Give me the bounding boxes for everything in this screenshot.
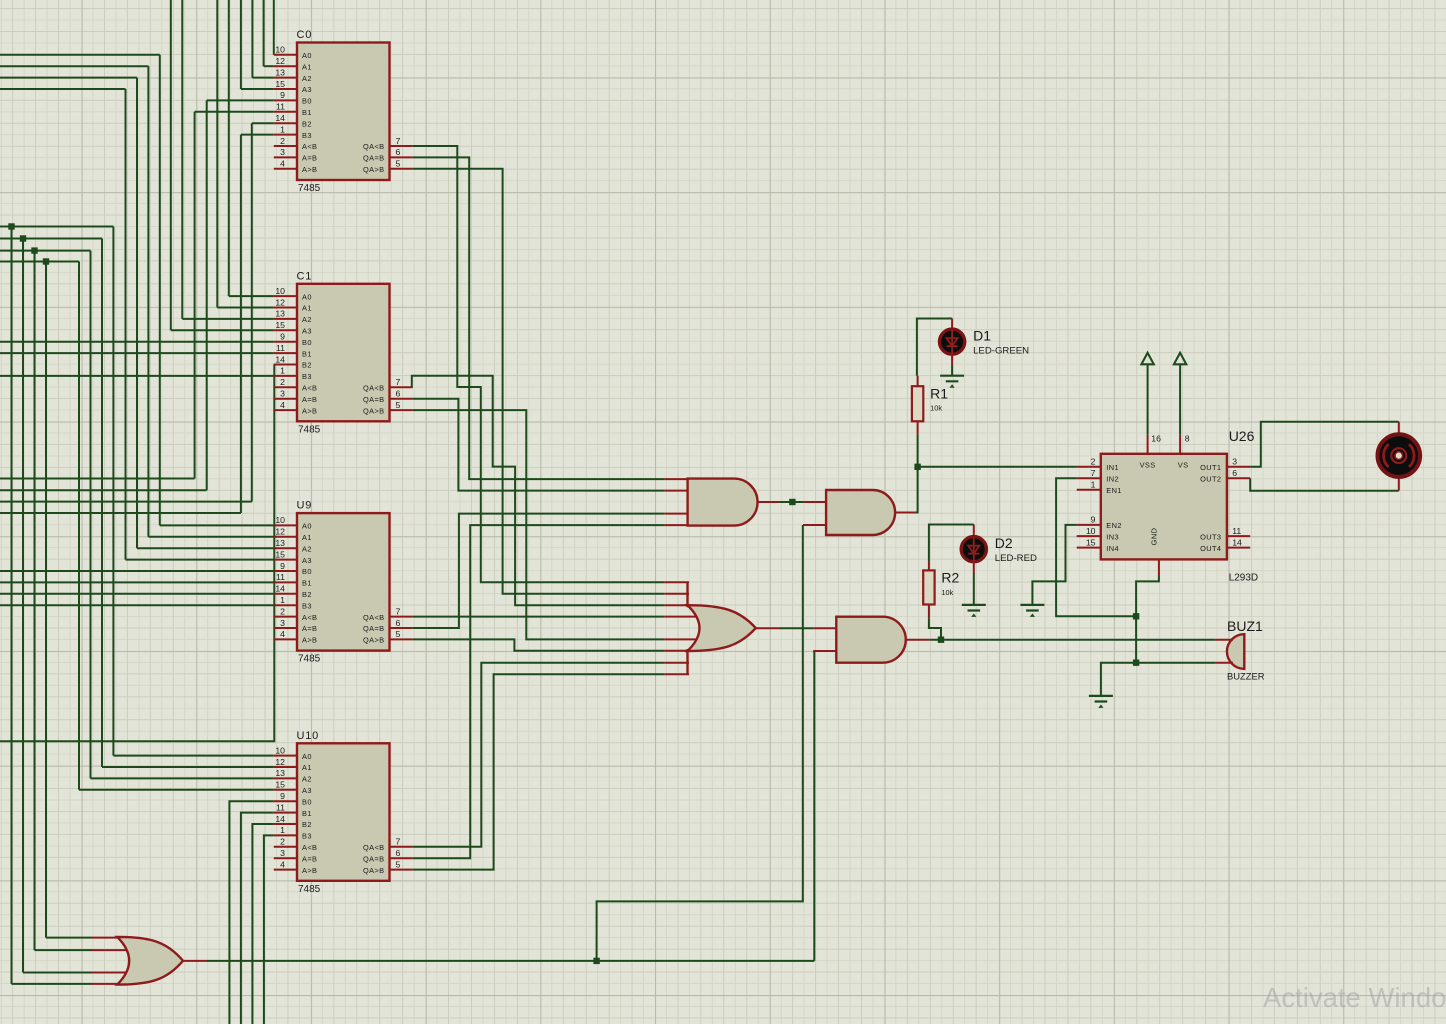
wire column x=137 to U9.A2 — [136, 78, 138, 549]
svg-text:B3: B3 — [302, 601, 312, 610]
U9 pin 15 (A3) stub — [274, 559, 297, 561]
svg-text:3: 3 — [280, 389, 285, 399]
svg-text:7485: 7485 — [298, 183, 321, 194]
U10 pin 5 (QA&gt;B) stub — [390, 869, 413, 871]
C0 pin 12 (A1) stub — [274, 65, 297, 67]
svg-text:13: 13 — [275, 768, 285, 778]
OR gate OR2 body outline — [688, 605, 756, 651]
wire into C0.A1 — [264, 65, 274, 67]
U26 pin 1 (EN1) stub — [1077, 489, 1101, 491]
AND gate AND2 input 2 stub — [803, 524, 826, 526]
svg-text:GND: GND — [1149, 528, 1158, 546]
svg-text:B2: B2 — [302, 361, 312, 370]
svg-text:9: 9 — [280, 90, 285, 100]
wire into OR1 in1 — [46, 937, 92, 939]
wire U26.OUT1 to motor + — [1250, 422, 1399, 467]
wire column x=228.8 from top edge to C1.A0 — [228, 0, 230, 296]
junction at (1136.1,662.7) — [1133, 660, 1139, 666]
svg-text:C1: C1 — [297, 270, 313, 282]
buzzer BUZ1 - pin stub — [1216, 662, 1233, 664]
wire D1 cathode to ground — [951, 366, 953, 376]
buzzer BUZ1 body — [1227, 634, 1244, 669]
OR gate OR1 input 1 stub — [92, 937, 119, 939]
svg-text:12: 12 — [275, 56, 285, 66]
wire column x=194.6 C0.B1 drop — [194, 112, 196, 479]
C1 pin 15 (A3) stub — [274, 329, 297, 331]
wire U10.B3 from bottom edge column x=263.9 — [264, 835, 274, 1024]
svg-text:A=B: A=B — [302, 624, 317, 633]
OR gate OR1 input 2 stub — [92, 949, 128, 951]
U9 pin 11 (B1) stub — [274, 581, 297, 583]
wire column x=46 (net to OR1 in1) — [45, 262, 47, 938]
wire U26.EN2 to ground symbol — [1032, 525, 1076, 605]
wire column x=148.4 to U9.A1 — [147, 66, 149, 537]
svg-text:5: 5 — [396, 859, 401, 869]
svg-text:A<B: A<B — [302, 843, 317, 852]
C1 pin 11 (B1) stub — [274, 352, 297, 354]
svg-text:QA<B: QA<B — [363, 142, 385, 151]
wire row y=54.8 from left edge — [0, 54, 160, 56]
power symbol (arrow up) — [1141, 353, 1153, 365]
svg-text:QA=B: QA=B — [363, 854, 385, 863]
U26 pin 6 (OUT2) stub — [1227, 477, 1250, 479]
wire OR1 output row — [207, 960, 815, 962]
wire bus row into U9.B3 — [0, 604, 274, 606]
comparator U9 7485 body — [297, 513, 390, 651]
wire column x=11.5 (net to OR1 in4) — [11, 227, 13, 984]
wire R1 bottom to junction — [917, 434, 919, 466]
C1 pin 6 (QA=B) stub — [390, 398, 413, 400]
motor U26 load (DC motor symbol) — [1378, 434, 1421, 477]
resistor R1 top lead — [917, 376, 919, 387]
wire into OR1 in2 — [35, 949, 93, 951]
AND gate AND1 input 4 stub — [664, 524, 687, 526]
LED D1 anode lead — [951, 319, 953, 331]
wire column x=170.8 from top edge to C1.A3 — [170, 0, 172, 330]
ground symbol — [1020, 605, 1044, 611]
wire into C1.A1 — [217, 307, 273, 309]
wire junction down to buzzer ground junction — [1135, 616, 1137, 662]
svg-text:11: 11 — [276, 572, 285, 582]
svg-text:6: 6 — [396, 618, 401, 628]
wire VS to power arrow — [1179, 365, 1181, 435]
junction at (1136.1,616.3) — [1133, 613, 1139, 619]
svg-text:B0: B0 — [302, 97, 312, 106]
wire C1.QA=B to AND1 in2 — [413, 399, 665, 491]
svg-text:11: 11 — [276, 102, 285, 112]
OR gate OR1 input 4 stub — [92, 983, 119, 985]
U10 pin 14 (B2) stub — [274, 823, 297, 825]
svg-text:2: 2 — [280, 837, 285, 847]
svg-text:4: 4 — [280, 859, 285, 869]
U9 pin 5 (QA&gt;B) stub — [390, 638, 413, 640]
svg-text:16: 16 — [1151, 434, 1161, 444]
svg-text:A3: A3 — [302, 556, 312, 565]
wire U10.B2 from bottom edge column x=252.4 — [252, 824, 273, 1024]
U9 pin 1 (B3) stub — [274, 604, 297, 606]
svg-text:7: 7 — [396, 136, 401, 146]
wire bus row into C1.B1 — [0, 352, 274, 354]
wire column x=251.8 C0.B2 drop — [251, 123, 253, 501]
svg-text:2: 2 — [280, 136, 285, 146]
OR gate OR2 input 1 stub — [664, 581, 689, 583]
svg-text:8: 8 — [1185, 434, 1190, 444]
svg-text:LED-GREEN: LED-GREEN — [973, 346, 1029, 357]
svg-text:OUT1: OUT1 — [1200, 463, 1221, 472]
svg-text:OUT4: OUT4 — [1200, 544, 1221, 553]
U9 pin 12 (A1) stub — [274, 536, 297, 538]
junction at AND1 output — [789, 499, 795, 505]
svg-text:B3: B3 — [302, 131, 312, 140]
svg-text:L293D: L293D — [1229, 573, 1258, 584]
svg-text:VS: VS — [1178, 461, 1189, 470]
wire into C0.B0 — [207, 99, 274, 101]
LED D2 diode symbol — [968, 537, 979, 561]
svg-text:5: 5 — [396, 400, 401, 410]
svg-text:Activate Windo: Activate Windo — [1263, 982, 1446, 1013]
svg-text:IN3: IN3 — [1106, 532, 1119, 541]
wire row y=501.6 to left edge — [0, 501, 252, 503]
wire row y=89 from left edge — [0, 88, 126, 90]
svg-text:13: 13 — [275, 67, 285, 77]
wire R2 bottom to AND3 output junction — [929, 618, 941, 640]
svg-text:6: 6 — [396, 389, 401, 399]
wire into C0.A0 — [273, 54, 275, 56]
wire column x=240.9 from top edge to C0.A3 — [240, 0, 242, 89]
U9 pin 6 (QA=B) stub — [390, 627, 413, 629]
LED D1 diode symbol — [947, 330, 958, 354]
wire row y=226.5 from left edge — [0, 226, 113, 228]
svg-text:9: 9 — [280, 791, 285, 801]
junction at (34.5,250.6) — [31, 247, 37, 253]
svg-text:IN1: IN1 — [1106, 463, 1119, 472]
svg-text:A2: A2 — [302, 74, 312, 83]
svg-text:B2: B2 — [302, 119, 312, 128]
wire column x=206.7 C0.B0 drop — [206, 100, 208, 490]
C1 pin 9 (B0) stub — [274, 341, 297, 343]
wire OR2 output to AND3 in1 — [779, 627, 813, 629]
AND gate AND1 body — [688, 479, 758, 526]
LED D1 body — [940, 329, 965, 354]
svg-text:U9: U9 — [297, 500, 313, 512]
U10 pin 10 (A0) stub — [274, 755, 297, 757]
driver U26 L293D body — [1101, 454, 1227, 560]
wire U10.QA=B up to AND1 in4 — [413, 525, 665, 858]
svg-text:7: 7 — [396, 377, 401, 387]
svg-text:1: 1 — [1091, 480, 1096, 490]
wire into OR1 in3 — [23, 972, 92, 974]
wire into C0.A3 — [241, 88, 274, 90]
wire U9.QA<B to OR2 in4 — [413, 616, 665, 618]
wire into OR1 in4 — [12, 983, 93, 985]
svg-text:IN4: IN4 — [1106, 544, 1119, 553]
wire U10.QA>B up to OR2 in8 — [413, 674, 665, 869]
wire into U9.A0 — [160, 524, 274, 526]
wire row y=478.5 to left edge — [0, 478, 195, 480]
svg-text:B1: B1 — [302, 809, 312, 818]
motor - lead — [1398, 479, 1400, 491]
wire into U9.A3 — [126, 559, 274, 561]
svg-text:13: 13 — [275, 538, 285, 548]
U9 pin 9 (B0) stub — [274, 570, 297, 572]
svg-text:2: 2 — [280, 606, 285, 616]
svg-text:B3: B3 — [302, 372, 312, 381]
svg-text:14: 14 — [275, 584, 285, 594]
C0 pin 14 (B2) stub — [274, 122, 297, 124]
C0 pin 2 (A&lt;B) stub — [274, 145, 297, 147]
ground symbol — [940, 376, 964, 382]
AND1 output stub — [758, 501, 780, 503]
C0 pin 3 (A=B) stub — [274, 156, 297, 158]
svg-text:14: 14 — [275, 113, 285, 123]
AND gate AND3 body — [836, 617, 906, 663]
junction at (596.6,960.9) — [593, 958, 599, 964]
svg-text:A<B: A<B — [302, 384, 317, 393]
LED D2 anode lead — [973, 525, 975, 538]
C0 pin 7 (QA&lt;B) stub — [390, 145, 413, 147]
svg-text:7485: 7485 — [298, 654, 321, 665]
U10 pin 15 (A3) stub — [274, 789, 297, 791]
C0 pin 13 (A2) stub — [274, 77, 297, 79]
svg-text:4: 4 — [280, 159, 285, 169]
svg-text:A>B: A>B — [302, 406, 317, 415]
wire C1.B2 to long vertical x=274.3 down to row 741.1 and left edge — [0, 365, 274, 742]
OR gate OR2 input 8 stub — [664, 673, 689, 675]
wire row y=238.5 from left edge — [0, 238, 102, 240]
svg-text:11: 11 — [276, 343, 285, 353]
U9 pin 13 (A2) stub — [274, 547, 297, 549]
svg-text:A2: A2 — [302, 315, 312, 324]
comparator C0 7485 body — [297, 43, 390, 181]
svg-text:12: 12 — [275, 527, 285, 537]
svg-text:BUZ1: BUZ1 — [1227, 618, 1263, 634]
svg-text:QA>B: QA>B — [363, 406, 385, 415]
U26 pin 14 (OUT4) stub — [1227, 547, 1250, 549]
U9 pin 2 (A&lt;B) stub — [274, 616, 297, 618]
svg-text:A2: A2 — [302, 544, 312, 553]
U10 pin 6 (QA=B) stub — [390, 857, 413, 859]
svg-text:C0: C0 — [297, 29, 313, 41]
U10 pin 13 (A2) stub — [274, 777, 297, 779]
resistor R2 body — [923, 570, 934, 604]
junction at (23,238.5) — [20, 235, 26, 241]
wire C1.QA>B to OR2 in5 — [413, 410, 665, 639]
wire C0.QA<B to OR2 in1 — [413, 146, 665, 582]
wire U10.B1 from bottom edge column x=240.9 — [241, 813, 274, 1024]
wire AND1 output to AND2 in1 — [780, 501, 803, 503]
C1 pin 10 (A0) stub — [274, 295, 297, 297]
wire column x=182.3 from top edge to C1.A2 — [181, 0, 183, 319]
C0 pin 10 (A0) stub — [274, 54, 297, 56]
svg-text:A0: A0 — [302, 522, 312, 531]
C1 pin 4 (A&gt;B) stub — [274, 409, 297, 411]
power symbol (arrow up) — [1174, 353, 1186, 365]
C1 pin 1 (B3) stub — [274, 375, 297, 377]
C0 pin 6 (QA=B) stub — [390, 156, 413, 158]
wire C0.QA=B to AND1 in1 — [413, 157, 665, 479]
svg-text:9: 9 — [280, 332, 285, 342]
LED D2 cathode lead — [973, 561, 975, 573]
wire column x=102 to U10.A1 — [101, 239, 103, 768]
C1 pin 12 (A1) stub — [274, 307, 297, 309]
wire bus row into C1.B3 — [0, 375, 274, 377]
U26 pin 11 (OUT3) stub — [1227, 535, 1250, 537]
C0 pin 4 (A&gt;B) stub — [274, 168, 297, 170]
svg-text:A3: A3 — [302, 85, 312, 94]
U10 pin 7 (QA&lt;B) stub — [390, 846, 413, 848]
LED D2 body — [961, 537, 986, 562]
motor + lead — [1398, 422, 1400, 433]
wire bus row into U9.B0 — [0, 570, 274, 572]
svg-text:LED-RED: LED-RED — [995, 553, 1037, 564]
svg-text:3: 3 — [280, 618, 285, 628]
C0 pin 11 (B1) stub — [274, 111, 297, 113]
ground symbol — [1089, 696, 1113, 702]
U26 pin 3 (OUT1) stub — [1227, 466, 1250, 468]
svg-text:QA>B: QA>B — [363, 866, 385, 875]
wire U26.OUT2 to motor - — [1250, 478, 1399, 490]
wire column x=90.5 to U10.A2 — [90, 251, 92, 779]
svg-text:3: 3 — [280, 147, 285, 157]
svg-text:A3: A3 — [302, 327, 312, 336]
C0 pin 15 (A3) stub — [274, 88, 297, 90]
wire AND3 output to buzzer — [929, 639, 1215, 641]
U26 pin 8 (VS) top lead — [1179, 435, 1181, 454]
svg-text:10: 10 — [275, 45, 285, 55]
svg-text:R1: R1 — [930, 385, 948, 401]
svg-text:U26: U26 — [1229, 428, 1255, 444]
wire U26.GND to junction — [1136, 576, 1159, 616]
svg-text:10k: 10k — [930, 404, 942, 413]
wire into C1.A0 — [229, 295, 274, 297]
svg-text:A1: A1 — [302, 533, 312, 542]
svg-text:B1: B1 — [302, 349, 312, 358]
svg-text:A1: A1 — [302, 304, 312, 313]
AND gate AND3 input 2 stub — [813, 650, 836, 652]
svg-text:15: 15 — [275, 79, 285, 89]
wire D2 cathode to ground — [973, 573, 975, 605]
OR2 output stub — [756, 627, 779, 629]
svg-text:15: 15 — [275, 549, 285, 559]
AND2 output stub — [895, 512, 916, 514]
wire column x=159.8 to U9.A0 — [159, 55, 161, 526]
wire into U10.A0 — [113, 755, 273, 757]
svg-text:6: 6 — [396, 147, 401, 157]
AND gate AND2 body — [826, 490, 895, 535]
svg-text:QA=B: QA=B — [363, 395, 385, 404]
wire U9.QA>B jog to OR2 in6 — [413, 639, 665, 650]
wire AND2 output up to junction with R1 and U26.IN1 — [916, 467, 918, 513]
svg-text:A>B: A>B — [302, 866, 317, 875]
svg-text:QA<B: QA<B — [363, 613, 385, 622]
wire into C0.B2 — [252, 122, 274, 124]
wire U10.B0 from bottom edge column x=229.4 — [229, 801, 273, 1024]
svg-text:QA<B: QA<B — [363, 384, 385, 393]
svg-text:11: 11 — [1232, 526, 1241, 536]
wire junction to U26.IN1 — [918, 466, 1077, 468]
AND gate AND1 input 2 stub — [664, 490, 687, 492]
svg-text:D1: D1 — [973, 328, 991, 344]
svg-text:EN2: EN2 — [1106, 521, 1122, 530]
U10 pin 12 (A1) stub — [274, 766, 297, 768]
wire row y=66.2 from left edge — [0, 65, 148, 67]
OR gate OR1 input 3 stub — [92, 972, 128, 974]
wire column x=263.6 from top edge to C0.A1 — [263, 0, 265, 66]
wire into C0.B1 — [195, 111, 274, 113]
svg-text:A1: A1 — [302, 62, 312, 71]
wire row y=250.6 from left edge — [0, 250, 91, 252]
svg-text:11: 11 — [276, 802, 285, 812]
U26 pin 16 (VSS) top lead — [1147, 435, 1149, 454]
U10 pin 11 (B1) stub — [274, 812, 297, 814]
wire column x=125.5 to U9.A3 — [125, 89, 127, 560]
U10 pin 3 (A=B) stub — [274, 857, 297, 859]
AND gate AND2 input 1 stub — [803, 501, 826, 503]
svg-text:14: 14 — [275, 354, 285, 364]
svg-text:A0: A0 — [302, 51, 312, 60]
svg-text:B0: B0 — [302, 338, 312, 347]
svg-text:6: 6 — [1232, 468, 1237, 478]
svg-text:15: 15 — [1086, 537, 1096, 547]
OR gate OR2 input 3 stub — [664, 604, 689, 606]
svg-text:2: 2 — [1091, 457, 1096, 467]
wire C1.QA<B to OR2 in3 — [412, 376, 664, 606]
OR gate OR2 input 5 stub — [664, 638, 698, 640]
wire column x=113.4 to U10.A0 — [112, 227, 114, 756]
wire row y=77.6 from left edge — [0, 77, 137, 79]
svg-text:B1: B1 — [302, 108, 312, 117]
wire column x=240.9 C0.B3 drop — [240, 135, 242, 513]
wire junction to ground — [1101, 663, 1136, 696]
C0 pin 9 (B0) stub — [274, 99, 297, 101]
svg-text:12: 12 — [275, 297, 285, 307]
svg-text:OUT2: OUT2 — [1200, 475, 1221, 484]
svg-text:U10: U10 — [297, 730, 320, 742]
wire into C0.B3 — [241, 134, 274, 136]
wire column x=23 (net to OR1 in3) — [22, 239, 24, 973]
OR gate OR1 body outline — [117, 937, 183, 985]
wire column x=34.5 (net to OR1 in2) — [34, 251, 36, 951]
resistor R2 bottom lead — [928, 605, 930, 619]
AND gate AND1 input 1 stub — [664, 478, 687, 480]
junction at (46,261.5) — [43, 258, 49, 264]
svg-text:5: 5 — [396, 159, 401, 169]
svg-text:QA=B: QA=B — [363, 154, 385, 163]
resistor R2 top lead — [928, 562, 930, 571]
svg-text:BUZZER: BUZZER — [1227, 671, 1265, 682]
C1 pin 3 (A=B) stub — [274, 398, 297, 400]
svg-text:9: 9 — [280, 561, 285, 571]
U26 pin 2 (IN1) stub — [1077, 466, 1101, 468]
svg-text:A=B: A=B — [302, 395, 317, 404]
svg-text:B2: B2 — [302, 590, 312, 599]
OR gate OR2 input 7 stub — [664, 662, 689, 664]
svg-text:14: 14 — [1232, 537, 1242, 547]
svg-text:B1: B1 — [302, 579, 312, 588]
wire into C1.A2 — [182, 318, 273, 320]
svg-text:1: 1 — [280, 825, 285, 835]
svg-text:QA>B: QA>B — [363, 636, 385, 645]
svg-text:EN1: EN1 — [1106, 486, 1122, 495]
U9 pin 7 (QA&lt;B) stub — [390, 616, 413, 618]
svg-text:7: 7 — [1091, 468, 1096, 478]
U10 pin 4 (A&gt;B) stub — [274, 869, 297, 871]
wire U9.QA=B up to AND1 in3 — [413, 514, 665, 628]
svg-text:7: 7 — [396, 837, 401, 847]
svg-text:QA=B: QA=B — [363, 624, 385, 633]
C0 pin 1 (B3) stub — [274, 134, 297, 136]
C1 pin 14 (B2) stub — [274, 364, 297, 366]
